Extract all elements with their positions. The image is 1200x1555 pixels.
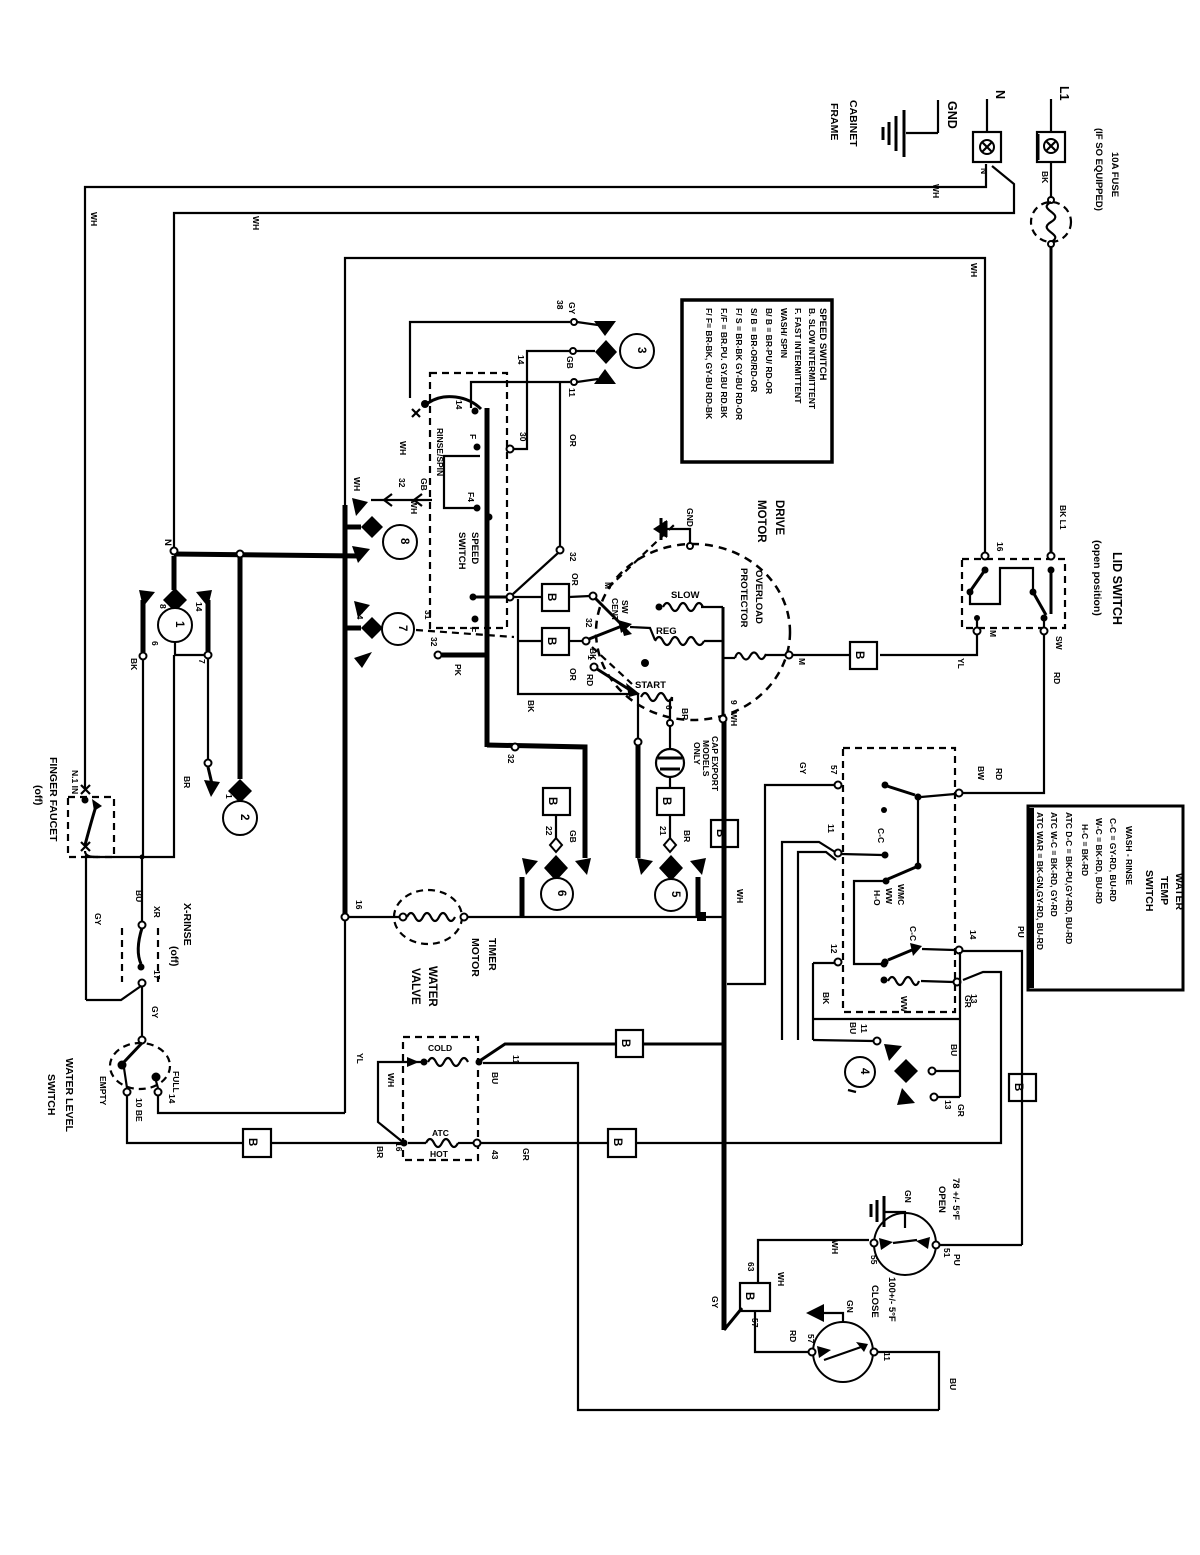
svg-text:TIMER: TIMER — [486, 938, 498, 971]
svg-text:OR: OR — [568, 434, 578, 447]
wire into node 8 upper arrow — [371, 499, 432, 501]
cent sw pole2 blade — [589, 626, 622, 639]
svg-text:3: 3 — [635, 347, 647, 353]
node 3 circle — [620, 334, 654, 368]
wire BK link — [518, 599, 638, 739]
timer motor dashed circle — [394, 890, 462, 944]
svg-text:OR: OR — [568, 668, 578, 681]
svg-text:GY: GY — [150, 1006, 160, 1019]
water level switch — [139, 1037, 146, 1044]
svg-text:WH: WH — [735, 889, 745, 903]
timer motor coil — [400, 914, 407, 921]
svg-text:MOTOR: MOTOR — [755, 500, 767, 543]
svg-text:63: 63 — [746, 1262, 756, 1272]
svg-text:WW: WW — [899, 996, 909, 1013]
node 2 circle — [223, 801, 257, 835]
overload protector coil — [723, 657, 735, 659]
svg-text:RD: RD — [788, 1330, 798, 1342]
wire BR down — [88, 655, 174, 857]
svg-text:BR: BR — [182, 776, 192, 788]
svg-text:DRIVE: DRIVE — [773, 500, 785, 535]
svg-text:BK L1: BK L1 — [1058, 505, 1068, 530]
wire BK BU down — [142, 659, 144, 857]
svg-text:B: B — [546, 797, 558, 805]
svg-text:(off): (off) — [168, 946, 180, 966]
water temp legend box — [1028, 806, 1183, 990]
wire 11 GY down — [782, 842, 835, 1040]
wire PU to right bus — [963, 951, 1022, 1245]
svg-text:1: 1 — [173, 621, 185, 628]
node 6 diamond arrow — [544, 855, 568, 881]
svg-text:N.1 IN: N.1 IN — [70, 770, 80, 794]
svg-text:SPEED SWITCH: SPEED SWITCH — [817, 308, 828, 380]
node 5 circle — [655, 879, 687, 911]
strap wire F to F4 — [444, 456, 480, 508]
svg-text:13: 13 — [943, 1100, 953, 1110]
svg-text:WH: WH — [89, 212, 99, 226]
wire to x-rinse — [86, 986, 141, 1000]
terminal SW — [1043, 620, 1045, 628]
wire OR vertical to cent switch — [559, 382, 561, 546]
svg-text:GND: GND — [945, 101, 959, 129]
svg-text:WH: WH — [251, 216, 261, 230]
thick PU line motor to bottom — [722, 722, 727, 1330]
svg-text:ATC D-C = BK-PU,GY-RD, BU-RD: ATC D-C = BK-PU,GY-RD, BU-RD — [1064, 812, 1074, 944]
drive motor dashed circle — [596, 544, 790, 720]
wire GY to water level — [141, 986, 143, 1037]
wire timer motor row — [348, 916, 400, 918]
svg-text:GY: GY — [710, 1296, 720, 1309]
svg-text:F./F = BR.PU. GY.BU RD.BK: F./F = BR.PU. GY.BU RD.BK — [719, 308, 729, 419]
svg-text:N: N — [993, 90, 1007, 99]
node 6 left feed — [520, 877, 525, 917]
svg-text:9: 9 — [729, 700, 739, 705]
B box node5 — [657, 788, 684, 815]
svg-text:WASH - RINSE: WASH - RINSE — [1124, 826, 1134, 885]
svg-text:10A FUSE: 10A FUSE — [1109, 152, 1120, 197]
svg-text:5: 5 — [669, 891, 681, 898]
svg-text:BU: BU — [848, 1022, 858, 1034]
svg-text:PU: PU — [952, 1254, 962, 1266]
svg-text:GND: GND — [685, 508, 695, 527]
svg-text:55: 55 — [869, 1255, 879, 1265]
wire to terminal 13 — [636, 972, 1001, 1143]
wire cold to B box — [481, 1044, 616, 1060]
node 5 left arrow — [637, 858, 653, 875]
svg-text:11: 11 — [826, 824, 836, 833]
wire arrow to reg coil — [630, 627, 655, 640]
svg-text:WATER: WATER — [426, 966, 438, 1007]
svg-text:16: 16 — [394, 1142, 404, 1152]
label GND — [937, 100, 939, 133]
bottom long wire BR — [271, 1142, 404, 1144]
svg-text:B: B — [611, 1138, 623, 1146]
wire RD from SW — [963, 635, 1044, 793]
wire B box to cent sw — [569, 596, 590, 597]
finger faucet dashed box — [68, 797, 114, 857]
svg-text:51: 51 — [942, 1248, 952, 1258]
svg-text:6: 6 — [150, 641, 160, 646]
open diamond — [550, 838, 562, 852]
svg-text:PK: PK — [453, 664, 463, 677]
wire YL bus down — [344, 921, 346, 1113]
svg-text:B: B — [660, 797, 672, 805]
node 3 bottom arrow — [594, 369, 616, 384]
lid switch pole 1 — [982, 567, 989, 574]
motor internal vertical — [722, 607, 725, 716]
svg-text:57: 57 — [806, 1334, 816, 1344]
svg-text:FINGER FAUCET: FINGER FAUCET — [47, 757, 59, 842]
contact F top — [474, 444, 481, 451]
svg-text:CLOSE: CLOSE — [869, 1285, 880, 1318]
lid switch BK contact — [1048, 553, 1055, 560]
wire YL from M — [880, 635, 977, 655]
terminal BW RD top — [956, 790, 963, 797]
svg-text:HOT: HOT — [430, 1149, 449, 1159]
svg-text:M: M — [988, 630, 998, 637]
ground symbol cabinet frame — [906, 132, 938, 134]
thermostat OPEN 78F — [874, 1213, 936, 1275]
svg-text:WH: WH — [386, 1073, 396, 1087]
svg-text:FULL: FULL — [171, 1071, 181, 1093]
wire OR diagonal to S terminal — [513, 553, 558, 594]
svg-text:BR: BR — [680, 708, 690, 720]
B box OR wire — [542, 584, 569, 611]
svg-text:VALVE: VALVE — [409, 968, 421, 1005]
svg-text:OR: OR — [570, 573, 580, 586]
svg-text:CABINET: CABINET — [847, 100, 859, 147]
svg-text:8: 8 — [398, 538, 410, 545]
svg-text:21: 21 — [658, 826, 668, 836]
node 1 left arrow — [139, 590, 155, 607]
svg-text:TEMP: TEMP — [1158, 876, 1170, 905]
node 1 circle — [158, 608, 192, 642]
svg-text:22: 22 — [544, 826, 554, 836]
temp switch pole 2 — [882, 959, 889, 966]
svg-text:30: 30 — [518, 432, 528, 442]
slow winding — [656, 604, 663, 611]
svg-text:SLOW: SLOW — [671, 590, 700, 601]
lid switch pole 2 — [1033, 592, 1046, 615]
node 4 plus — [848, 1090, 856, 1092]
B box GY — [740, 1283, 770, 1311]
wire WH to open thermostat — [758, 1240, 869, 1283]
svg-text:GB: GB — [419, 478, 429, 491]
svg-text:BK: BK — [129, 658, 139, 671]
svg-text:6: 6 — [555, 890, 567, 896]
wire BU down loop — [483, 1063, 939, 1410]
terminal 11 — [835, 850, 842, 857]
svg-text:REG: REG — [656, 626, 677, 637]
water temp switch dashed box — [843, 748, 955, 1012]
svg-text:SWITCH: SWITCH — [45, 1074, 57, 1115]
svg-text:BU: BU — [948, 1378, 958, 1390]
svg-text:RD: RD — [585, 674, 595, 686]
svg-text:C-C = GY-RD, BU-RD: C-C = GY-RD, BU-RD — [1108, 818, 1118, 902]
svg-text:6: 6 — [664, 705, 674, 710]
svg-text:SWITCH: SWITCH — [1143, 870, 1155, 911]
junction circle — [237, 551, 244, 558]
wire to node 4 — [813, 1040, 873, 1041]
cent sw terminal — [590, 593, 597, 600]
OPEN thermostat ground — [884, 1212, 905, 1228]
speed switch common bus — [485, 408, 490, 747]
valve common wire — [378, 1062, 424, 1143]
svg-text:ONLY: ONLY — [692, 742, 702, 765]
svg-text:BK: BK — [1040, 171, 1050, 184]
svg-text:GY: GY — [567, 302, 577, 315]
WW coil — [881, 977, 888, 984]
svg-text:F/ S = BR-BK GY-BU RD-OR: F/ S = BR-BK GY-BU RD-OR — [734, 308, 744, 420]
node 4 bottom arrow — [897, 1088, 915, 1105]
svg-text:X-RINSE: X-RINSE — [181, 903, 193, 946]
terminal circle node3 mid — [570, 348, 576, 354]
vertical x960 — [959, 952, 961, 1097]
svg-text:N: N — [162, 539, 173, 546]
svg-text:BU: BU — [134, 890, 144, 902]
staircase wire to node 6 — [487, 745, 585, 858]
node 1 feed diamond — [172, 556, 177, 590]
svg-text:START: START — [635, 680, 666, 691]
CLOSE thermostat ground — [824, 1313, 843, 1322]
dashed link node7 to speed switch — [416, 630, 514, 637]
svg-text:ATC WAR = BK-GN,GY-RD, BU-RD: ATC WAR = BK-GN,GY-RD, BU-RD — [1035, 812, 1045, 950]
svg-text:LID SWITCH: LID SWITCH — [1110, 552, 1124, 625]
svg-text:BR: BR — [682, 830, 692, 842]
svg-text:14: 14 — [355, 610, 365, 620]
svg-text:OVERLOAD: OVERLOAD — [753, 570, 764, 624]
node 6 left arrow — [522, 858, 538, 875]
svg-text:12: 12 — [829, 944, 839, 954]
svg-text:XR: XR — [152, 906, 162, 918]
node 7 upper arrow — [354, 601, 370, 618]
node 7 lower arrow — [354, 652, 372, 668]
svg-text:WMC: WMC — [896, 884, 906, 905]
svg-text:(open position): (open position) — [1091, 540, 1103, 616]
svg-text:(IF SO EQUIPPED): (IF SO EQUIPPED) — [1093, 128, 1104, 211]
water valve dashed box — [403, 1037, 478, 1160]
svg-text:GR: GR — [956, 1104, 966, 1117]
node 2 left arrow — [207, 658, 209, 760]
svg-text:MOTOR: MOTOR — [469, 938, 481, 977]
svg-text:B: B — [743, 1292, 755, 1300]
node 4 circle — [845, 1057, 875, 1087]
svg-text:2: 2 — [238, 814, 250, 820]
node 8 lower arrow with N bus — [352, 546, 370, 563]
svg-text:GY: GY — [798, 762, 808, 775]
terminal 14 — [956, 947, 963, 954]
svg-text:WH: WH — [409, 500, 419, 514]
start blade — [597, 669, 630, 690]
svg-text:WH: WH — [776, 1272, 786, 1286]
node 1 left leg BK — [141, 600, 146, 652]
svg-text:WH: WH — [830, 1240, 840, 1254]
cent sw blade down — [595, 598, 626, 629]
svg-text:RD: RD — [994, 768, 1004, 780]
svg-text:GN: GN — [845, 1300, 855, 1313]
contact S — [470, 594, 477, 601]
motor ground — [687, 543, 693, 549]
node 8 upper arrow — [352, 498, 368, 516]
svg-text:100+/- 5°F: 100+/- 5°F — [886, 1277, 897, 1322]
svg-text:8: 8 — [158, 604, 168, 609]
speed switch dashed box — [430, 373, 507, 628]
wire BK to fuse — [1050, 162, 1052, 197]
svg-text:PU: PU — [1016, 926, 1026, 938]
wire BK strap — [812, 963, 814, 1040]
fuse 10A — [1048, 197, 1054, 203]
contact R — [486, 514, 493, 521]
svg-text:43: 43 — [490, 1150, 500, 1160]
svg-text:GR: GR — [521, 1148, 531, 1161]
node 7 diamond arrow — [361, 617, 383, 639]
svg-text:B: B — [545, 593, 557, 601]
svg-text:F4: F4 — [466, 492, 476, 502]
cent sw dashed link — [608, 525, 674, 588]
node 3 diamond arrow — [595, 340, 617, 364]
svg-text:SW: SW — [620, 600, 630, 615]
wire RD to CLOSE thermostat — [755, 1311, 808, 1352]
svg-text:OPEN: OPEN — [936, 1186, 947, 1213]
wire to node 5 left — [635, 739, 642, 746]
svg-text:1: 1 — [586, 655, 596, 660]
wire BK L1 down to lid switch — [1050, 247, 1053, 552]
svg-text:4: 4 — [858, 1068, 870, 1075]
svg-text:H-O: H-O — [872, 890, 882, 906]
wire node1 bottom to BR — [175, 642, 205, 655]
wire PK — [435, 652, 442, 659]
svg-text:SWITCH: SWITCH — [456, 532, 467, 570]
connector plug N — [973, 132, 1001, 162]
node 1 right leg — [206, 600, 211, 651]
node 3 top arrow — [594, 321, 616, 336]
svg-text:(off): (off) — [32, 785, 44, 805]
svg-text:32: 32 — [568, 552, 578, 562]
node 5 diamond arrow — [659, 855, 683, 881]
svg-text:GB: GB — [565, 356, 575, 369]
svg-text:EMPTY: EMPTY — [98, 1076, 108, 1106]
svg-text:31: 31 — [423, 610, 433, 620]
svg-text:S/ B = BR-OR/RD-OR: S/ B = BR-OR/RD-OR — [749, 308, 759, 392]
lid switch link — [970, 568, 1033, 604]
node 5 right arrow — [690, 858, 706, 875]
wire bus top to node 3 lower feed — [471, 382, 570, 408]
wire faucet to GY — [85, 851, 98, 857]
terminal 57 — [835, 782, 842, 789]
svg-text:GY: GY — [93, 913, 103, 926]
terminal circle node3 bottom — [571, 379, 577, 385]
svg-text:7: 7 — [396, 625, 408, 631]
svg-text:32: 32 — [397, 478, 407, 488]
open diamond — [664, 838, 676, 852]
node 1 right arrow — [196, 590, 212, 607]
wire B box to node5 — [669, 815, 671, 838]
finger faucet contacts — [82, 797, 89, 804]
svg-text:ATC: ATC — [432, 1128, 449, 1138]
svg-text:H-C = BK-RD: H-C = BK-RD — [1080, 824, 1090, 876]
svg-text:F/ F= BR-BK, GY-BU RD-BK: F/ F= BR-BK, GY-BU RD-BK — [704, 308, 714, 420]
B box bottom middle — [608, 1129, 636, 1157]
wire to node 3 top — [410, 322, 570, 398]
svg-text:BK: BK — [821, 992, 831, 1005]
svg-text:C-C: C-C — [876, 828, 886, 843]
wire S terminal segment — [473, 596, 507, 599]
B box YL — [850, 642, 877, 669]
GY diagonal to B box — [724, 1308, 742, 1330]
connector plug L1 — [1037, 132, 1065, 162]
svg-text:COLD: COLD — [428, 1043, 452, 1053]
svg-text:WH: WH — [352, 477, 362, 491]
svg-text:14: 14 — [167, 1094, 177, 1104]
svg-text:14: 14 — [516, 355, 526, 365]
svg-text:GN: GN — [903, 1190, 913, 1203]
wire B box to overload M — [792, 654, 850, 656]
wire OR to B box — [513, 596, 542, 598]
svg-text:B: B — [619, 1039, 631, 1047]
B box cold — [616, 1030, 643, 1057]
svg-text:B: B — [1012, 1083, 1024, 1091]
svg-text:C-C: C-C — [908, 926, 918, 941]
svg-text:RD: RD — [1052, 672, 1062, 684]
svg-text:WH: WH — [931, 184, 941, 198]
svg-text:WH: WH — [729, 712, 739, 726]
svg-text:WW: WW — [884, 888, 894, 905]
svg-text:11: 11 — [882, 1352, 892, 1361]
svg-text:WASH/ SPIN: WASH/ SPIN — [779, 308, 789, 358]
svg-text:B/ B = BR-PU/ RD-OR: B/ B = BR-PU/ RD-OR — [764, 308, 774, 394]
svg-text:B: B — [246, 1138, 258, 1146]
svg-text:BW: BW — [976, 766, 986, 781]
node 8 diamond arrow — [361, 516, 383, 538]
x-rinse terminals — [139, 922, 146, 929]
svg-text:14: 14 — [454, 400, 464, 410]
svg-text:BU: BU — [490, 1072, 500, 1084]
stub to node 8 diamond — [345, 525, 361, 530]
svg-text:PROTECTOR: PROTECTOR — [738, 568, 749, 628]
cent sw pole 2 terminal — [583, 638, 590, 645]
svg-text:ATC W-C = BK-RD, GY-RD: ATC W-C = BK-RD, GY-RD — [1049, 812, 1059, 917]
svg-text:F: F — [468, 434, 478, 439]
x-rinse blade — [138, 928, 142, 964]
node 6 circle — [541, 878, 573, 910]
wire B box to node6 — [555, 815, 557, 838]
svg-text:32: 32 — [584, 618, 594, 628]
vertical bus x345 thick — [343, 505, 348, 917]
B box node6 — [543, 788, 570, 815]
wire B box to PU line — [643, 1043, 724, 1046]
lid switch terminal 16 — [982, 553, 989, 560]
strap WMC — [854, 881, 886, 964]
svg-text:16: 16 — [354, 900, 364, 910]
svg-text:BR: BR — [375, 1146, 385, 1158]
svg-text:B: B — [545, 637, 557, 645]
svg-text:7: 7 — [197, 659, 207, 664]
node 4 diamond arrow — [894, 1059, 918, 1083]
node 2 feed — [238, 557, 243, 779]
svg-text:WH: WH — [969, 263, 979, 277]
svg-text:78 +/- 5°F: 78 +/- 5°F — [950, 1178, 961, 1220]
x-rinse dashed box — [121, 928, 123, 982]
wire WH top rail 1 — [85, 164, 986, 789]
dashed link pole2 — [592, 647, 632, 684]
wire L1 — [1050, 99, 1052, 132]
B box bottom left — [243, 1129, 271, 1157]
junction circle 32 — [512, 744, 519, 751]
wire BU from CLOSE — [877, 1352, 939, 1410]
svg-text:SW: SW — [1054, 636, 1064, 651]
wire terminal 12 — [835, 959, 842, 966]
svg-text:B: B — [853, 651, 865, 659]
